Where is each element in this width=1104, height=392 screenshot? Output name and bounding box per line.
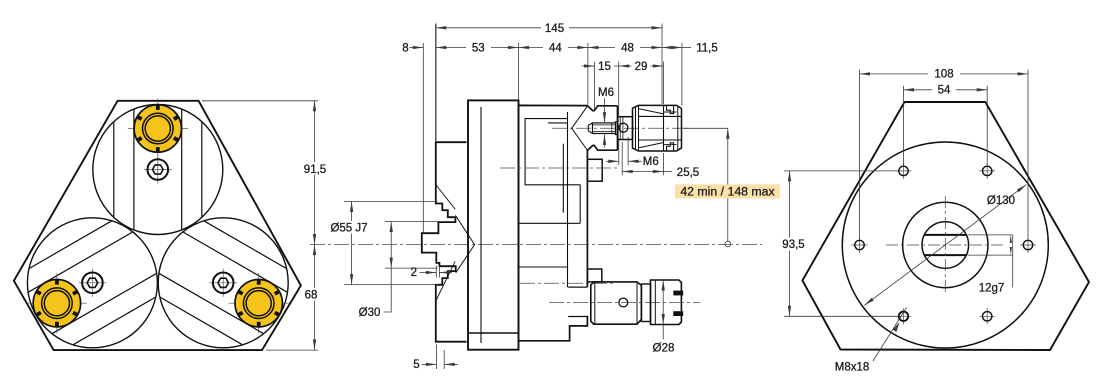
badge 42 min / 148 max background (675, 184, 780, 198)
chuck jaw chamfer line lower (436, 261, 455, 300)
M6 top leader arrows (604, 98, 606, 123)
svg-text:8: 8 (402, 42, 408, 54)
center crosshair (886, 196, 1005, 294)
drive tang slot chords 12g7 (924, 235, 966, 255)
lower spindle bore lines (568, 287, 587, 316)
M6 stud body (593, 123, 616, 134)
spindle bore circle bottom-right (158, 218, 288, 348)
collet bore lines (639, 116, 682, 140)
housing step block below collet head (587, 159, 602, 181)
spindle arbor cone (572, 106, 588, 150)
flange face circle D130 (842, 142, 1048, 348)
svg-text:5: 5 (413, 359, 419, 371)
lower collet body face lines (595, 282, 637, 324)
collet flange lines (636, 105, 639, 151)
label 29 (632, 60, 651, 72)
second housing section (519, 105, 618, 340)
label 53 (466, 42, 491, 54)
dimension 145 (435, 24, 437, 142)
bolt hole bottom-right (979, 308, 995, 324)
bolt hole left (852, 237, 868, 253)
svg-text:53: 53 (472, 42, 485, 54)
label 44 (543, 42, 568, 54)
M8x18 leader (873, 308, 907, 362)
svg-text:Ø55 J7: Ø55 J7 (330, 223, 367, 235)
dimension 8 (422, 43, 424, 233)
svg-text:54: 54 (938, 84, 951, 96)
chuck jaw chamfer line upper (437, 186, 456, 210)
collet bottom-left (27, 273, 87, 333)
left view dimension 91,5 and 68 (202, 101, 318, 350)
lower collet dowel circle (619, 298, 628, 307)
right view hexagonal flange outline (802, 102, 1089, 350)
collet nut slot top (667, 105, 674, 113)
bolt hole bottom-left (896, 308, 912, 324)
label 68 (300, 288, 322, 301)
svg-text:15: 15 (598, 61, 611, 73)
label 91,5 (297, 162, 333, 175)
collet bottom-right (229, 273, 289, 333)
reference extension line from collet face (684, 127, 728, 129)
svg-text:Ø28: Ø28 (653, 342, 675, 354)
section inner vertical line 2 (562, 144, 564, 213)
lower collet nut (651, 280, 682, 325)
right view dimension 93,5 (784, 171, 898, 316)
center bore D55 (903, 202, 988, 287)
bolt hole top-left (896, 163, 912, 179)
centerline main axis (310, 244, 762, 246)
svg-text:Ø30: Ø30 (359, 307, 381, 319)
label D55 J7 (327, 221, 375, 234)
svg-text:M6: M6 (598, 87, 614, 99)
upper spindle bore lines (525, 119, 580, 185)
dimension 15 (595, 62, 619, 116)
spindle bore circle top (93, 105, 223, 235)
center bore D30 (922, 222, 969, 269)
bottom-right circle slot lines (159, 221, 288, 345)
section inner step line (519, 266, 568, 268)
svg-text:42 min / 148 max: 42 min / 148 max (680, 185, 775, 199)
dimension D55 J7 (344, 201, 438, 284)
label 108 (928, 68, 960, 80)
lower collet body (591, 282, 642, 324)
hex socket screw bottom-right (209, 269, 237, 297)
right view dimension 108 (860, 70, 1029, 240)
svg-text:145: 145 (545, 23, 564, 35)
hex socket screw bottom-left (78, 269, 106, 297)
dimension 44 (587, 43, 589, 105)
lower nut slot bottom (673, 311, 683, 316)
dimension 12g7 (968, 235, 1013, 255)
dimension 53 (518, 43, 520, 100)
svg-text:12g7: 12g7 (979, 283, 1005, 295)
svg-text:108: 108 (934, 69, 953, 81)
spindle axis centerline top (500, 167, 618, 169)
svg-text:M8x18: M8x18 (835, 362, 870, 374)
label 145 (541, 22, 569, 35)
M6 stud collar (616, 122, 618, 135)
housing step block above lower collet (587, 269, 601, 282)
cross dowel block (618, 117, 633, 140)
cross dowel circle (619, 123, 628, 132)
collet nut slot bottom (667, 143, 674, 151)
dimension 29 (662, 62, 664, 105)
label 54 (932, 84, 956, 96)
lower collet nut face line (654, 280, 656, 325)
dimension 5 (436, 345, 444, 370)
chuck flange and jaw profile (422, 142, 467, 342)
collet nut inner lines (664, 112, 677, 144)
svg-text:25,5: 25,5 (677, 167, 699, 179)
bottom-left circle slot lines (28, 221, 157, 345)
lower collet neck (641, 284, 650, 322)
svg-text:Ø130: Ø130 (987, 195, 1015, 207)
label 48 (615, 42, 640, 54)
M6 stud thread root lines (593, 123, 616, 134)
label 15 (595, 60, 614, 72)
dimension 25,5 (622, 142, 663, 175)
svg-text:68: 68 (305, 290, 318, 302)
M6 stud tip (588, 123, 592, 134)
hex socket screw top (144, 156, 172, 184)
svg-text:2: 2 (411, 267, 417, 279)
top circle slot lines (114, 109, 202, 230)
dimension D30 (385, 222, 438, 269)
dimension D130 diameter line (864, 185, 1026, 306)
upper collet body and nut outline (633, 105, 682, 151)
dimension D28 (662, 280, 664, 325)
chuck center cone bore (455, 215, 474, 273)
svg-text:91,5: 91,5 (304, 164, 326, 176)
svg-text:M6: M6 (643, 156, 659, 168)
reference node circle (725, 241, 731, 247)
left view hexagonal head plate outline (14, 101, 301, 350)
svg-text:29: 29 (635, 61, 648, 73)
M6 bottom dimension (619, 137, 628, 165)
label 93,5 (776, 238, 811, 251)
centerline lower spindle axis (549, 301, 700, 303)
svg-text:93,5: 93,5 (782, 239, 804, 251)
svg-text:11,5: 11,5 (696, 42, 718, 54)
lower nut slot top (673, 291, 683, 296)
centerline upper spindle axis (552, 127, 689, 129)
svg-text:48: 48 (621, 42, 634, 54)
right view dimension 54 (904, 86, 988, 165)
dimension 11,5 (681, 43, 683, 106)
spindle cartridge step (519, 185, 580, 224)
body inner face line (480, 107, 482, 343)
dimension 2 (436, 266, 439, 278)
section inner vertical line 1 (567, 112, 569, 287)
collet taper lines (639, 109, 664, 148)
collet nut rim line (677, 106, 679, 150)
collet nut face line (663, 105, 665, 151)
dimension 48 (588, 47, 662, 49)
spindle axis centerline bottom (520, 282, 613, 284)
main gearbox body (468, 100, 519, 349)
body inner bottom line (468, 332, 519, 334)
bolt hole right (1020, 237, 1036, 253)
bolt hole top-right (979, 163, 995, 179)
collet top (128, 99, 188, 159)
svg-text:44: 44 (549, 42, 562, 54)
reference line 42min/148max (727, 128, 729, 241)
spindle bore circle bottom-left (27, 218, 157, 348)
cross dowel block inner lines (620, 117, 623, 140)
